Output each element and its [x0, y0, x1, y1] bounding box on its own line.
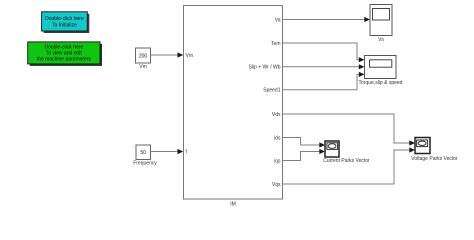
svg-text:Double-click here: Double-click here — [45, 16, 84, 22]
svg-text:Voltage Parks Vector: Voltage Parks Vector — [411, 156, 458, 162]
constant block Frequency value 50 — [133, 145, 157, 166]
svg-text:Vm: Vm — [186, 53, 194, 59]
scope Vs — [370, 5, 392, 44]
svg-text:Vds: Vds — [272, 112, 281, 118]
XY graph Current Parks Vector — [323, 141, 370, 164]
wire Slip + Wr / Wb to scope (straight) — [283, 64, 365, 69]
svg-text:Vs: Vs — [378, 37, 384, 43]
annotation button Initialize (cyan) — [42, 12, 90, 33]
wire Vm constant to IM — [151, 52, 184, 57]
wire Speed1 to scope (up at x=360) — [283, 72, 365, 90]
svg-text:the machine parameters: the machine parameters — [37, 56, 91, 62]
wire Vqs to Voltage Parks Vector — [283, 147, 416, 184]
constant block Vm value 200 — [136, 48, 151, 70]
svg-text:IM: IM — [230, 201, 236, 207]
annotation button machine parameters (green) — [28, 42, 102, 66]
subsystem block IM — [184, 6, 283, 208]
svg-text:Vm: Vm — [139, 64, 147, 70]
svg-text:To Initialize: To Initialize — [52, 22, 77, 28]
wire Va to scope Vs — [283, 17, 371, 22]
svg-text:Slip + Wr / Wb: Slip + Wr / Wb — [249, 64, 281, 70]
svg-text:ids: ids — [274, 135, 281, 141]
wire Frequency constant to IM — [151, 149, 184, 154]
svg-text:Frequency: Frequency — [133, 160, 157, 166]
svg-text:Torque,slip & speed: Torque,slip & speed — [359, 80, 403, 86]
svg-text:Va: Va — [275, 17, 281, 23]
wire Tem to scope (down at x=357) — [283, 43, 365, 62]
svg-text:200: 200 — [139, 53, 148, 59]
scope Torque,slip & speed — [359, 56, 403, 87]
wire iqs to Current Parks Vector — [283, 149, 326, 161]
svg-text:Speed1: Speed1 — [263, 88, 280, 94]
XY graph Voltage Parks Vector — [411, 138, 458, 162]
svg-text:50: 50 — [140, 150, 146, 156]
svg-text:Vqs: Vqs — [272, 182, 281, 188]
wire Vds to Voltage Parks Vector — [283, 114, 416, 146]
svg-text:Current Parks Vector: Current Parks Vector — [323, 158, 370, 164]
wire ids to Current Parks Vector — [283, 138, 326, 148]
svg-text:Tem: Tem — [271, 41, 280, 47]
svg-text:iqs: iqs — [274, 158, 281, 164]
